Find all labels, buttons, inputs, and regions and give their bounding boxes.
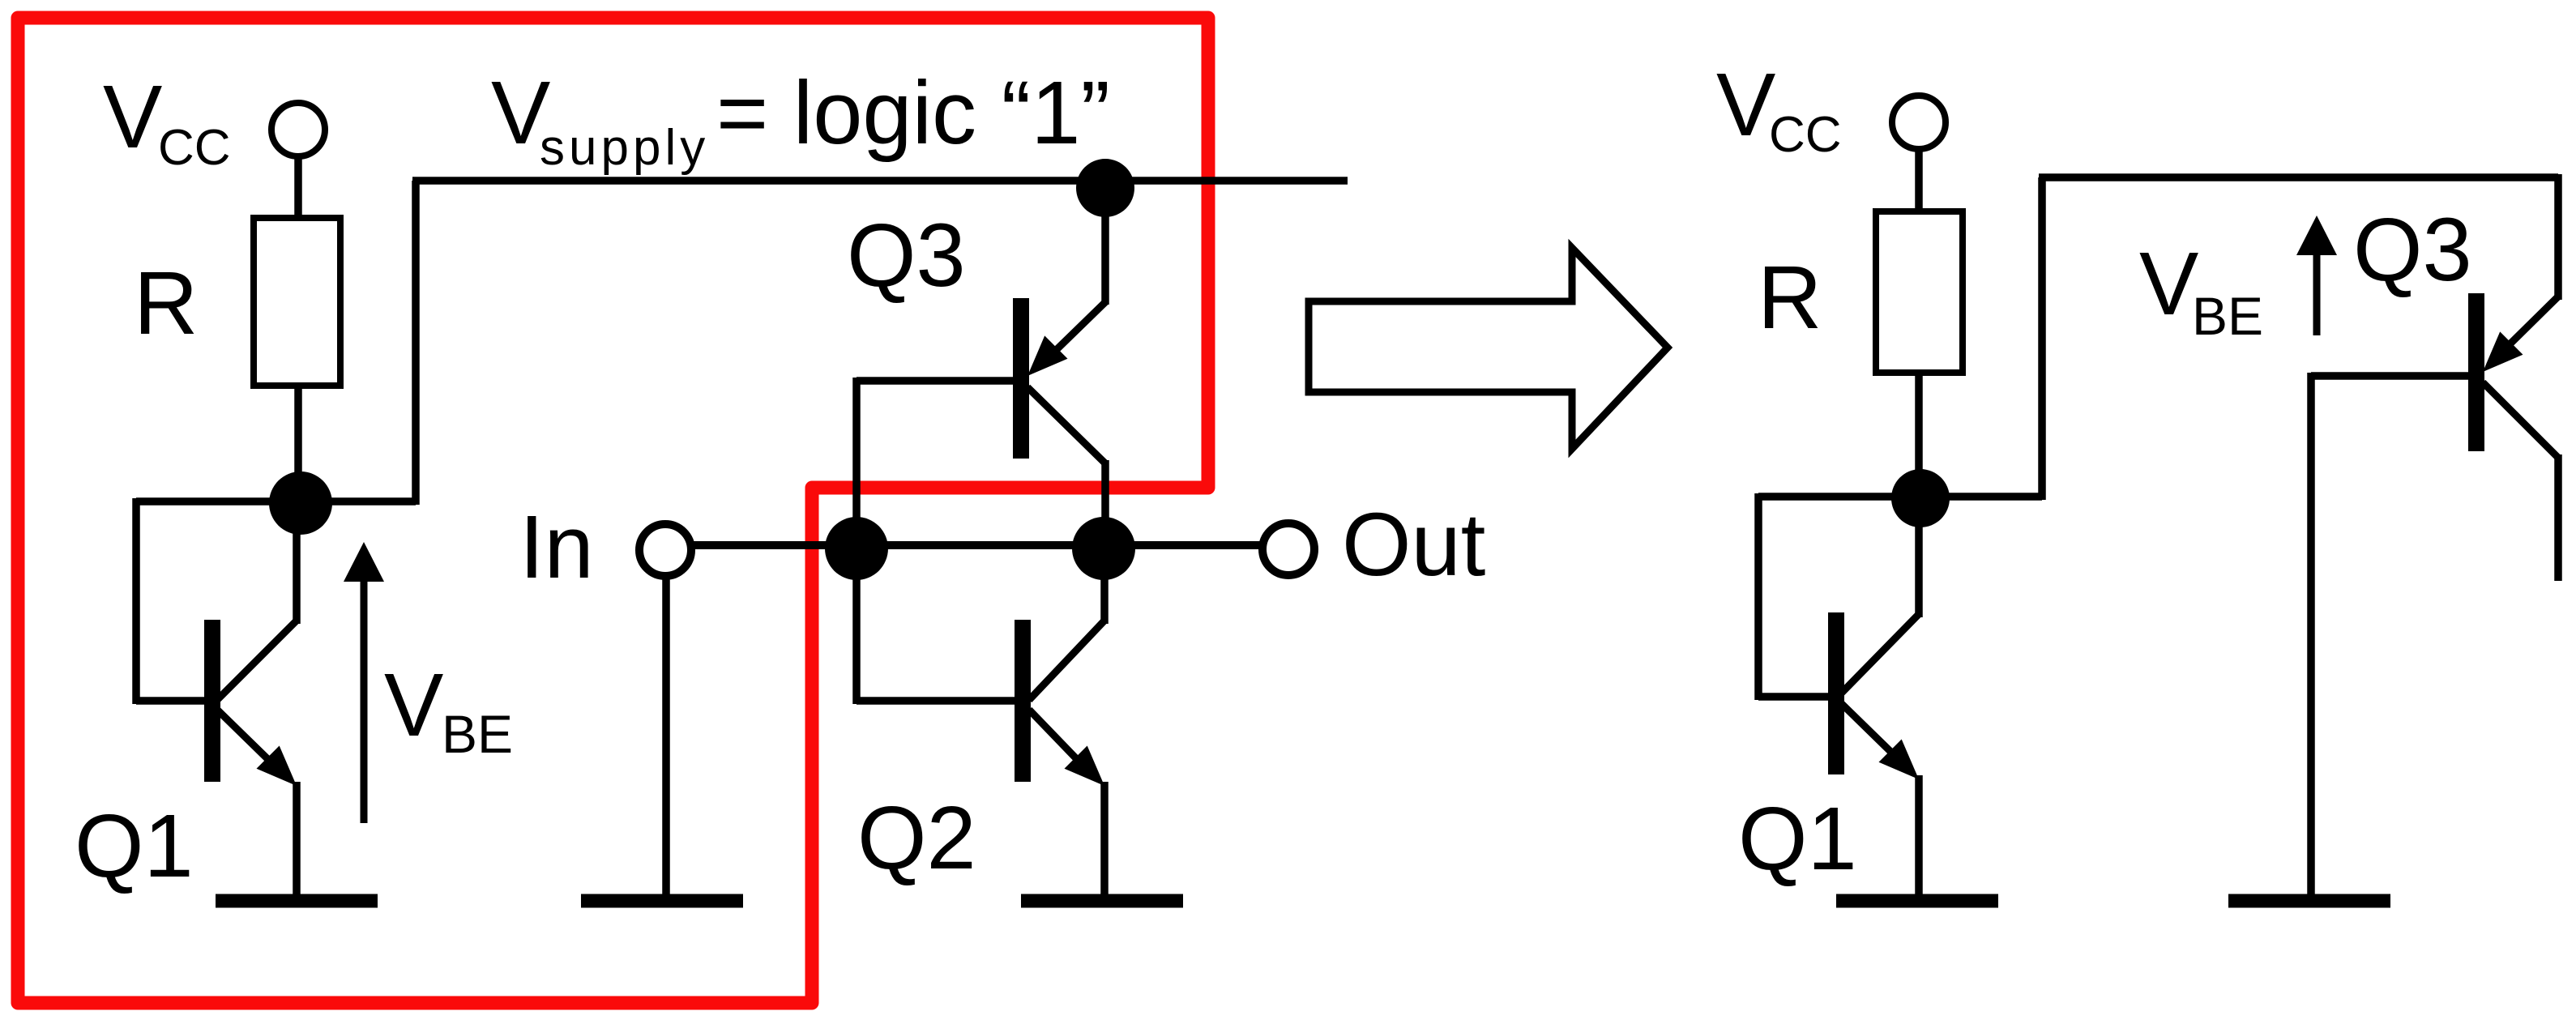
svg-text:V: V	[103, 67, 162, 167]
svg-text:= logic “1”: = logic “1”	[716, 63, 1110, 163]
svg-text:CC: CC	[1769, 107, 1842, 163]
svg-text:In: In	[519, 497, 594, 597]
svg-text:CC: CC	[158, 120, 231, 176]
svg-text:R: R	[134, 254, 198, 353]
svg-text:Out: Out	[1342, 495, 1485, 595]
svg-text:Q1: Q1	[75, 796, 194, 896]
svg-text:V: V	[384, 655, 443, 755]
svg-text:R: R	[1758, 248, 1822, 348]
svg-text:Q3: Q3	[2353, 200, 2472, 300]
svg-text:V: V	[2139, 234, 2198, 334]
svg-text:Q1: Q1	[1738, 789, 1857, 889]
svg-text:Q2: Q2	[857, 788, 976, 888]
svg-text:supply: supply	[540, 120, 709, 176]
svg-text:BE: BE	[2192, 286, 2263, 346]
svg-text:V: V	[1716, 55, 1775, 155]
svg-text:BE: BE	[442, 704, 513, 764]
svg-text:Q3: Q3	[847, 206, 966, 305]
